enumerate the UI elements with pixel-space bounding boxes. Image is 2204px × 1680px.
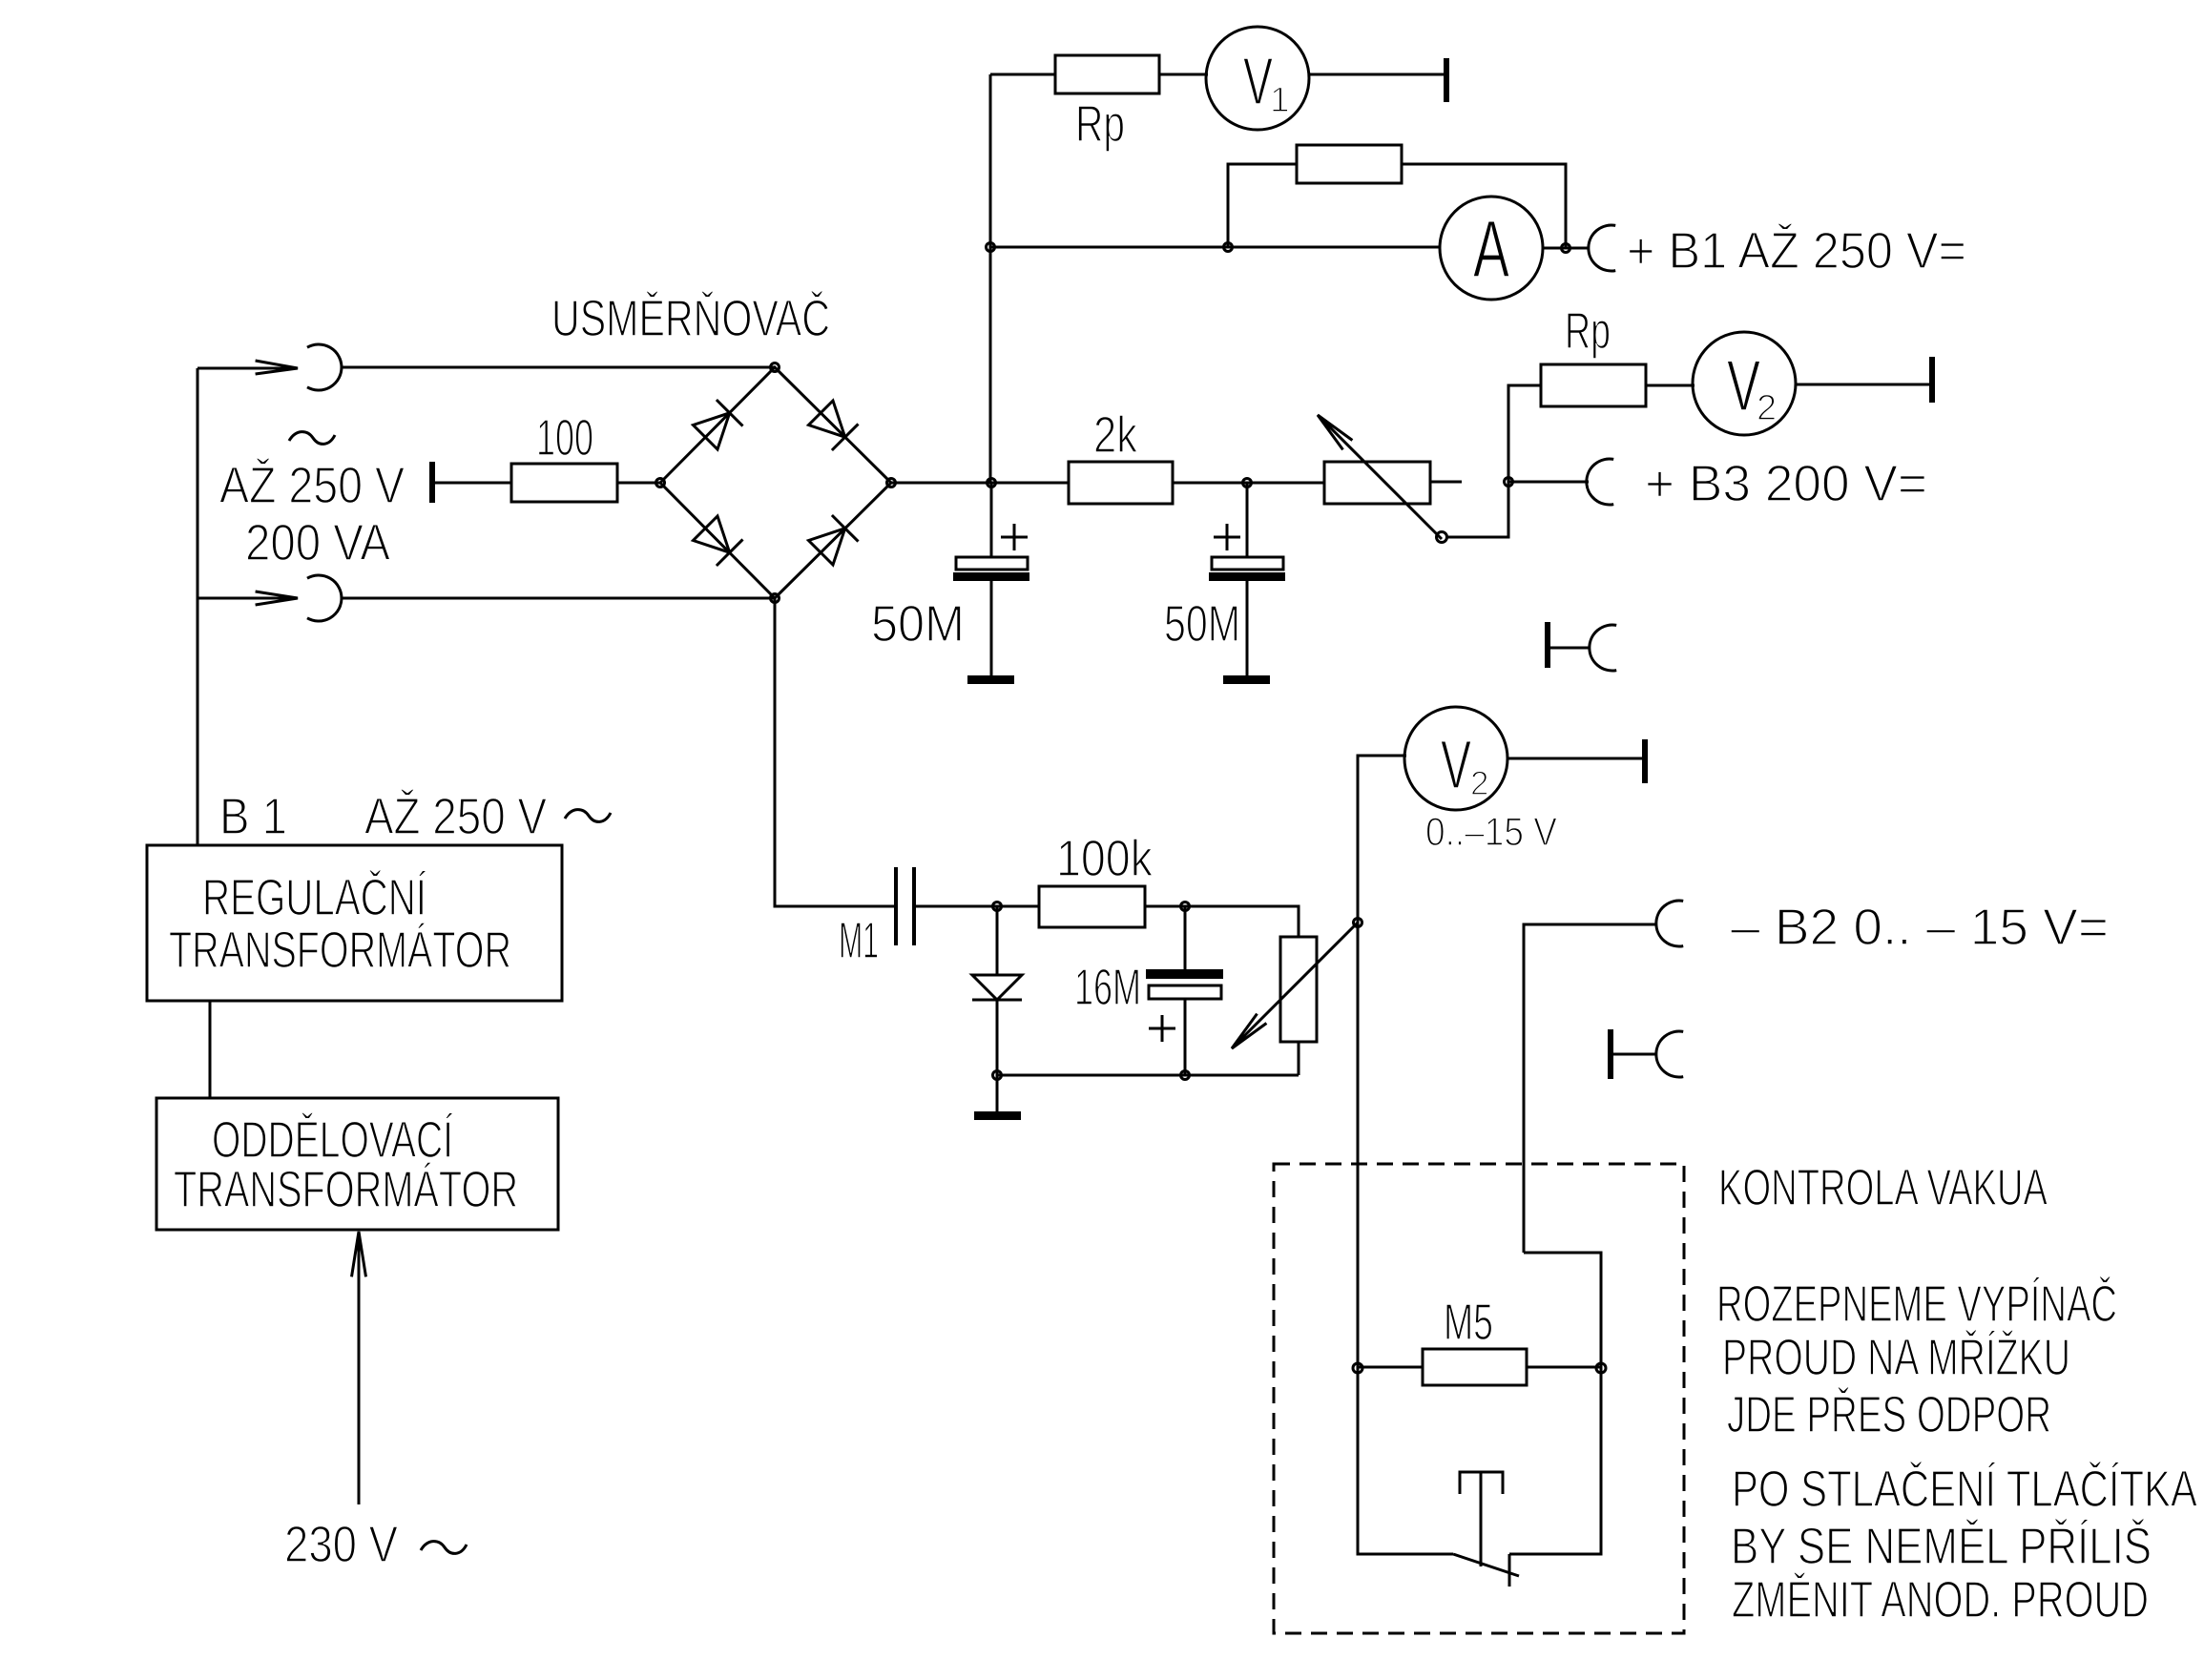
resistor Rp (top) <box>1055 55 1159 93</box>
svg-text:TRANSFORMÁTOR: TRANSFORMÁTOR <box>174 1161 518 1218</box>
svg-text:– B2 0.. – 15 V=: – B2 0.. – 15 V= <box>1731 899 2109 956</box>
svg-text:V: V <box>1243 44 1273 118</box>
wire Rp to V1 <box>1159 73 1208 76</box>
wire Rp2 to V2 <box>1646 384 1695 387</box>
voltmeter V1 <box>1206 27 1309 130</box>
svg-text:ODDĚLOVACÍ: ODDĚLOVACÍ <box>212 1111 453 1169</box>
resistor 2k <box>1069 462 1173 504</box>
svg-text:M1: M1 <box>839 912 879 969</box>
node bridge left <box>656 479 665 487</box>
wire 16M bottom lead <box>1184 999 1187 1075</box>
svg-text:M5: M5 <box>1444 1294 1493 1351</box>
capacitor 50M no.2 negative plate <box>1209 572 1285 581</box>
svg-text:ROZEPNEME VYPÍNAČ: ROZEPNEME VYPÍNAČ <box>1716 1276 2117 1333</box>
node filter cap 2 <box>1243 479 1252 487</box>
capacitor M1 plate left <box>894 867 898 945</box>
wire 100 to bridge left <box>617 482 660 485</box>
terminal bar (V2b ground) <box>1642 739 1648 783</box>
terminal bar unused pair 2 <box>1608 1029 1613 1079</box>
wire plug arrow lower shaft <box>198 597 298 600</box>
wire cap2 top lead <box>1246 483 1249 557</box>
node DC bus / filter cap 1 <box>988 479 996 487</box>
ammeter A <box>1440 197 1543 300</box>
wire bias diode anode lead <box>996 906 999 975</box>
pushbutton actuator <box>1460 1472 1503 1566</box>
svg-text:USMĚRŇOVAČ: USMĚRŇOVAČ <box>551 290 830 347</box>
plug arrow upper head <box>256 361 298 374</box>
wire bias vertical (wiper to V2 and M5) <box>1358 756 1406 1553</box>
label ~ (230 V) <box>421 1542 467 1554</box>
wire switch left rail <box>1358 1368 1453 1554</box>
node bridge right <box>887 479 896 487</box>
ground bar cap2 <box>1223 675 1270 684</box>
terminal socket B2 <box>1656 901 1683 946</box>
wire cap1 bottom lead <box>990 580 993 678</box>
label + (16M) <box>1149 1015 1175 1042</box>
wire B2 socket lead <box>1524 924 1656 1253</box>
terminal socket unused pair 2 <box>1656 1031 1683 1077</box>
wire bridge bottom to M1 <box>775 598 894 906</box>
transformer box ODDELOVACI <box>156 1098 558 1230</box>
wire B2 branch into box <box>1524 1253 1601 1368</box>
ground bar bias <box>974 1111 1021 1120</box>
wire M5 right lead <box>1527 1366 1601 1369</box>
wire B3 node to socket <box>1508 481 1589 484</box>
resistor Rp2 <box>1541 364 1646 406</box>
wire ground stub <box>996 1075 999 1112</box>
svg-text:50M: 50M <box>871 595 965 653</box>
svg-text:BY SE NEMĚL PŘÍLIŠ: BY SE NEMĚL PŘÍLIŠ <box>1731 1518 2152 1575</box>
node bias rail mid <box>1181 1071 1190 1080</box>
wire bridge diamond <box>660 367 891 598</box>
node bias diode top <box>993 902 1002 911</box>
svg-text:0..–15 V: 0..–15 V <box>1425 809 1557 854</box>
svg-text:+ B1 AŽ 250 V=: + B1 AŽ 250 V= <box>1627 222 1966 280</box>
wire mains 230V with arrow <box>358 1232 361 1504</box>
capacitor M1 plate right <box>912 867 916 945</box>
socket arc lower input <box>307 575 342 621</box>
diode bridge D2 (top-right) <box>809 401 859 450</box>
wire shunt left leg <box>1228 164 1297 247</box>
wire mains vertical (transformer input side) <box>197 368 199 845</box>
mains arrow head <box>352 1232 366 1276</box>
terminal bar (V1 ground) <box>1444 58 1449 102</box>
wire Rp2 left leg <box>1508 385 1541 537</box>
capacitor 16M negative plate <box>1146 969 1223 979</box>
svg-text:1: 1 <box>1270 80 1290 119</box>
potentiometer wiper arrow <box>1318 415 1442 539</box>
svg-text:V: V <box>1727 345 1760 425</box>
label + (cap2) <box>1214 524 1240 550</box>
wire 2k to potentiometer <box>1173 482 1324 485</box>
svg-text:AŽ 250 V: AŽ 250 V <box>219 457 405 514</box>
wire lower AC to bridge bottom <box>342 597 775 600</box>
svg-text:16M: 16M <box>1074 959 1141 1016</box>
terminal socket B3 <box>1587 459 1613 505</box>
resistor 100k <box>1039 886 1145 927</box>
wire bar to 100 <box>435 482 511 485</box>
svg-text:A: A <box>1473 204 1509 294</box>
switch blade (NC pushbutton) <box>1453 1554 1519 1576</box>
capacitor 50M no.1 negative plate <box>953 572 1029 581</box>
wire bias diode cathode lead <box>996 1000 999 1075</box>
transformer box REGULACNI <box>147 845 562 1001</box>
wire 16M top lead <box>1184 906 1187 970</box>
node rheostat wiper tap <box>1354 919 1362 927</box>
node shunt left <box>1224 243 1233 252</box>
node 16M top <box>1181 902 1190 911</box>
node bridge top <box>771 363 780 372</box>
wire A to terminal <box>1543 247 1589 250</box>
wire B1 bus <box>990 246 1441 249</box>
node B3 <box>1505 478 1513 487</box>
terminal bar (100 ohm input) <box>429 462 435 503</box>
node wiper <box>1437 532 1447 543</box>
socket arc upper input <box>307 344 342 390</box>
resistor 100 <box>511 464 617 502</box>
wire 100k to rheostat top <box>1145 906 1299 937</box>
diode bridge D3 (bottom-left) <box>694 516 743 566</box>
wire M5 left lead <box>1358 1366 1423 1369</box>
svg-text:2: 2 <box>1757 388 1777 428</box>
label ~ (transformer) <box>565 810 611 822</box>
label ~ (AZ 250 V) <box>289 432 335 445</box>
wire pot right stub <box>1430 481 1462 484</box>
label + (cap1) <box>1001 524 1028 550</box>
diode bridge D4 (bottom-right) <box>809 515 859 565</box>
wire wiper to B3 vertical <box>1447 385 1508 537</box>
node M5 right <box>1596 1363 1606 1373</box>
rheostat body (bias adjust) <box>1280 937 1317 1042</box>
wire between transformer boxes <box>209 1001 212 1098</box>
rheostat wiper arrow <box>1232 923 1358 1048</box>
capacitor 50M no.2 positive plate <box>1212 557 1283 570</box>
terminal bar (V2 ground) <box>1929 357 1935 403</box>
svg-text:230 V: 230 V <box>284 1516 398 1573</box>
diode bridge D1 (top-left) <box>694 400 743 449</box>
terminal socket unused pair 1 <box>1590 625 1616 671</box>
svg-text:+ B3 200 V=: + B3 200 V= <box>1645 455 1927 512</box>
svg-text:Rp: Rp <box>1075 95 1125 153</box>
svg-text:KONTROLA VAKUA: KONTROLA VAKUA <box>1718 1159 2048 1216</box>
svg-text:100: 100 <box>536 409 593 467</box>
svg-text:V: V <box>1441 728 1471 803</box>
svg-text:REGULAČNÍ: REGULAČNÍ <box>202 869 426 926</box>
wire vertical left bus <box>989 74 992 483</box>
wire V2b to terminal <box>1507 757 1643 760</box>
svg-text:2k: 2k <box>1093 406 1138 464</box>
resistor shunt (above ammeter) <box>1297 145 1402 183</box>
switch contact tick <box>1508 1554 1511 1587</box>
wire upper AC to bridge top <box>342 366 775 369</box>
node bridge bottom <box>771 594 780 603</box>
terminal bar unused pair 1 <box>1545 622 1550 668</box>
wire unused pair 1 <box>1550 647 1590 650</box>
svg-text:ZMĚNIT ANOD. PROUD: ZMĚNIT ANOD. PROUD <box>1732 1571 2149 1628</box>
voltmeter V2 bottom <box>1404 707 1507 810</box>
resistor M5 <box>1423 1349 1527 1385</box>
wire cap2 bottom lead <box>1246 580 1249 678</box>
wire V1 to terminal <box>1308 73 1445 76</box>
svg-text:AŽ 250 V: AŽ 250 V <box>364 788 547 845</box>
wire M1 to 100k <box>916 905 1039 908</box>
wire shunt right leg <box>1402 164 1566 247</box>
node M5 left <box>1353 1363 1362 1373</box>
diode bias rectifier <box>972 975 1022 1000</box>
svg-text:TRANSFORMÁTOR: TRANSFORMÁTOR <box>169 922 511 979</box>
dashed box KONTROLA VAKUA <box>1274 1164 1684 1633</box>
wire cap1 top lead <box>990 483 993 557</box>
wire plug arrow upper shaft <box>198 367 298 370</box>
ground bar cap1 <box>967 675 1014 684</box>
svg-text:2: 2 <box>1470 765 1488 802</box>
wire switch right rail <box>1509 1368 1601 1554</box>
wire bias bottom rail <box>997 1074 1299 1077</box>
svg-text:JDE PŘES ODPOR: JDE PŘES ODPOR <box>1727 1386 2051 1443</box>
terminal socket B1 <box>1589 225 1615 271</box>
svg-text:200 VA: 200 VA <box>245 514 390 571</box>
svg-text:Rp: Rp <box>1565 302 1611 360</box>
svg-text:B 1: B 1 <box>219 788 287 845</box>
wire V2 to terminal <box>1795 384 1930 386</box>
node bias rail left <box>993 1071 1002 1080</box>
capacitor 50M no.1 positive plate <box>956 557 1028 570</box>
node B1 bus left <box>987 243 995 252</box>
svg-text:100k: 100k <box>1056 830 1154 887</box>
potentiometer body (B3 adjust) <box>1324 462 1430 504</box>
voltmeter V2 top <box>1693 332 1796 435</box>
node A output <box>1562 244 1570 253</box>
wire rheostat bottom <box>1298 1042 1300 1075</box>
wire unused pair 2 <box>1613 1053 1656 1056</box>
wire DC bus (bridge right to 2k) <box>891 482 1069 485</box>
plug arrow lower head <box>256 591 298 605</box>
svg-text:PO STLAČENÍ TLAČÍTKA: PO STLAČENÍ TLAČÍTKA <box>1732 1461 2197 1518</box>
svg-text:50M: 50M <box>1164 595 1240 653</box>
wire V1 branch left <box>990 73 1055 76</box>
capacitor 16M positive plate <box>1149 985 1221 999</box>
svg-text:PROUD NA MŘÍŽKU: PROUD NA MŘÍŽKU <box>1722 1329 2070 1386</box>
